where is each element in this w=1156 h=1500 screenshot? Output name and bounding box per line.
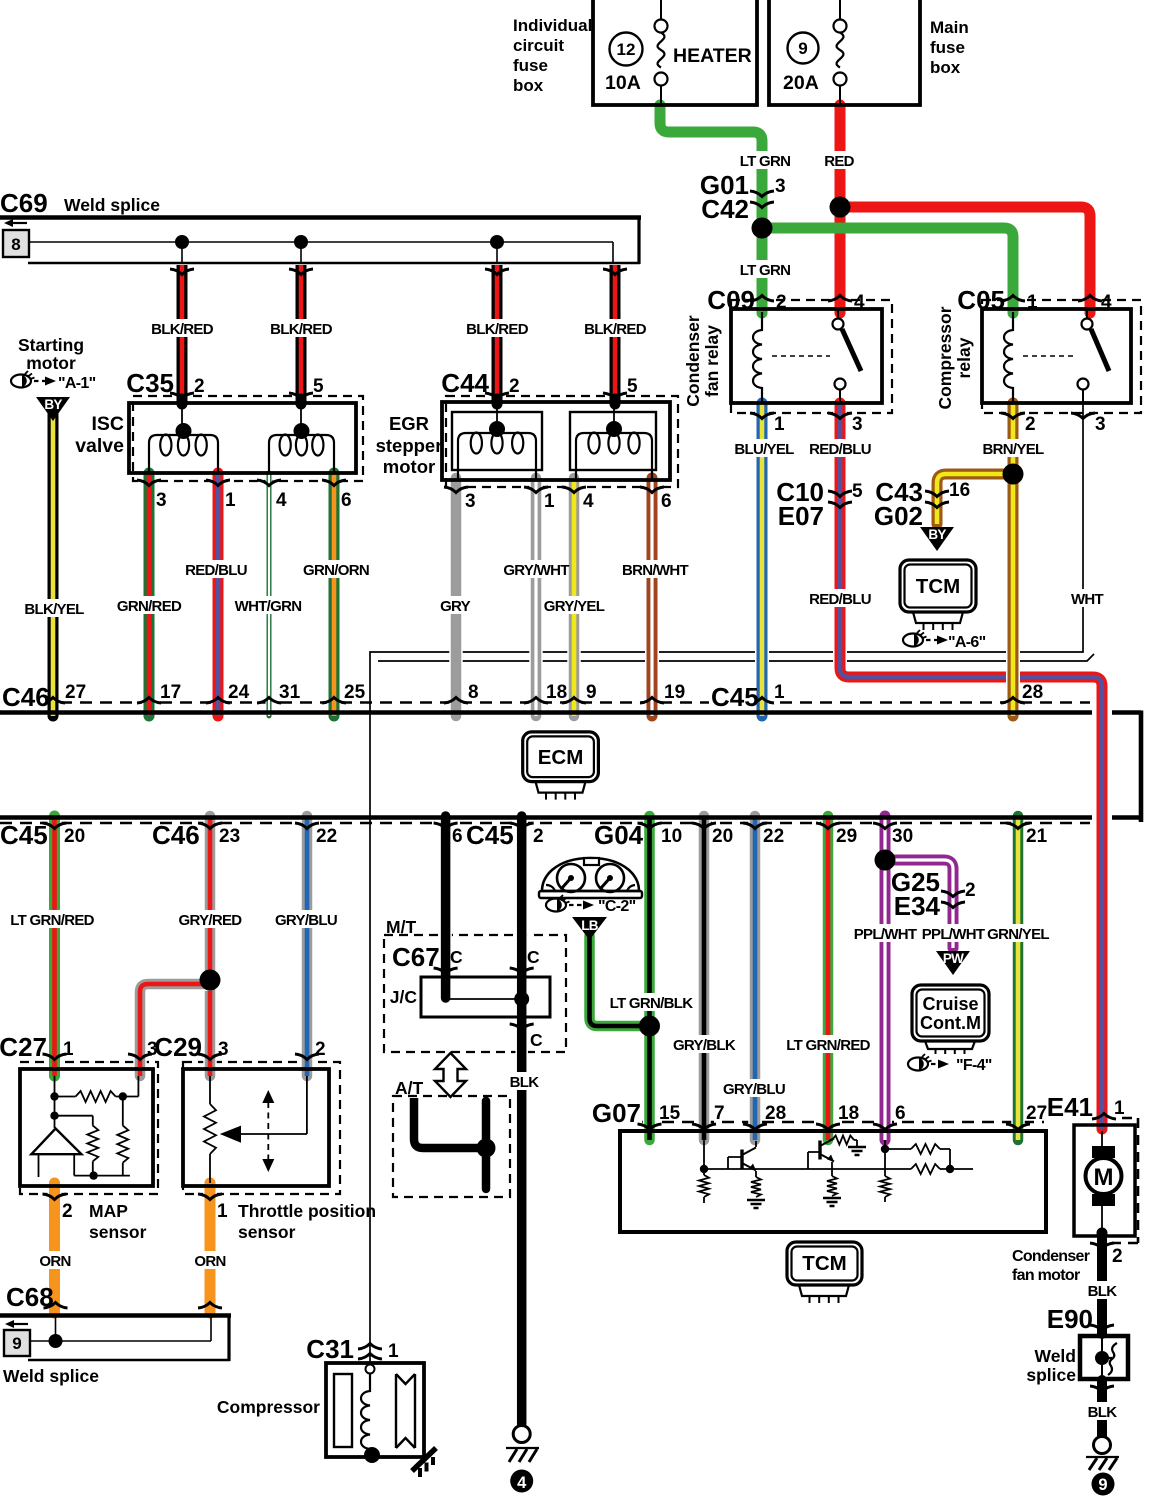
- svg-text:8: 8: [11, 235, 20, 254]
- A/T wire L: [414, 1098, 478, 1148]
- svg-text:motor: motor: [26, 353, 76, 373]
- svg-text:stepper: stepper: [376, 435, 443, 456]
- label BLK: [511, 1072, 537, 1090]
- TCM module lower: [787, 1242, 862, 1285]
- svg-text:"A-1": "A-1": [58, 375, 96, 392]
- svg-text:box: box: [930, 58, 961, 77]
- label GRY: [442, 596, 468, 614]
- svg-text:ORN: ORN: [194, 1253, 225, 1270]
- connector C45/C46/G04 dashed line: [0, 822, 1090, 825]
- cruise control module: [912, 985, 989, 1041]
- wire LT GRN from heater fuse to C09 pin 2: [660, 105, 762, 313]
- main fuse box: [769, 0, 920, 105]
- wire BLK/RED 3 from C69: [490, 265, 504, 399]
- wire thin line to ECM region: [378, 654, 1094, 661]
- svg-text:fan relay: fan relay: [702, 325, 722, 397]
- ECM box bottom edge / connector row C45-G04: [0, 815, 1141, 820]
- C68 terminal 9: [4, 1330, 30, 1356]
- label RED/BLU: [189, 560, 244, 578]
- svg-text:BY: BY: [44, 397, 62, 412]
- svg-text:M/T: M/T: [386, 917, 416, 937]
- svg-text:BLK/RED: BLK/RED: [270, 321, 333, 338]
- condenser fan relay box: [731, 309, 882, 403]
- svg-text:Weld splice: Weld splice: [3, 1366, 99, 1386]
- label GRY/RED: [183, 910, 238, 928]
- svg-text:C31: C31: [306, 1334, 354, 1364]
- arrow PW to cruise module: [936, 951, 970, 975]
- label BRN/WHT: [628, 560, 683, 578]
- label ORN 2: [197, 1251, 223, 1269]
- wire GRY/BLK G04 pin20 to G07 pin7: [697, 816, 711, 1140]
- svg-text:16: 16: [949, 480, 970, 501]
- driver resistor R3: [827, 1176, 837, 1196]
- svg-text:motor: motor: [383, 456, 435, 477]
- connector C05 dashed outline: [982, 300, 1141, 413]
- svg-text:Cont.M: Cont.M: [920, 1013, 981, 1033]
- transistor Q1: [740, 1150, 743, 1169]
- ISC coil 2: [269, 435, 334, 473]
- svg-text:1: 1: [774, 682, 785, 703]
- label GRN/YEL: [991, 924, 1046, 942]
- svg-text:BLK/RED: BLK/RED: [584, 321, 647, 338]
- TPS wiper arrow: [220, 1126, 241, 1143]
- svg-text:3: 3: [156, 490, 167, 511]
- svg-text:GRN/RED: GRN/RED: [117, 598, 182, 615]
- svg-text:21: 21: [1026, 826, 1048, 847]
- wire BLK C45 pin6 to J/C: [439, 816, 452, 998]
- label BLK 3: [1089, 1402, 1115, 1420]
- svg-text:BY: BY: [928, 527, 946, 542]
- svg-text:Individual: Individual: [513, 16, 592, 35]
- svg-text:6: 6: [895, 1103, 906, 1124]
- wire GRY/RED branch to C27 pin 3: [140, 984, 210, 1076]
- TCM lower pins: [799, 1285, 849, 1296]
- MAP joint 2: [50, 1112, 58, 1120]
- svg-text:PW: PW: [943, 951, 964, 966]
- wire GRY EGR pin3 to C46 pin 8: [449, 478, 463, 716]
- EGR stepper motor box: [442, 402, 670, 480]
- wire LT GRN branch to C05 pin 1: [762, 228, 1013, 313]
- svg-text:C69: C69: [0, 188, 48, 218]
- wire RED/BLU C09 pin3 to E41 pin 1: [840, 403, 1102, 1129]
- connector E41 dashed outline: [1112, 1118, 1138, 1243]
- svg-text:ORN: ORN: [39, 1253, 70, 1270]
- svg-text:sensor: sensor: [89, 1222, 147, 1242]
- C09 relay coil: [753, 312, 762, 403]
- wire ORN TPS pin1 to C68: [203, 1183, 217, 1313]
- C05 relay coil: [1004, 312, 1013, 403]
- E90 through wire: [1101, 1336, 1103, 1379]
- wire BLK/RED 2 from C69: [294, 265, 308, 399]
- wire BLK/RED 3 end cap: [492, 399, 503, 404]
- label PPL/WHT 2: [926, 924, 981, 942]
- wire PPL/WHT G04 pin30 to G07 pin6: [878, 816, 892, 1140]
- cruise module pins: [925, 1041, 975, 1049]
- wire BLK/RED 1 end cap: [177, 399, 188, 404]
- svg-text:BLK/RED: BLK/RED: [151, 321, 214, 338]
- svg-text:circuit: circuit: [513, 36, 564, 55]
- svg-text:C: C: [527, 947, 540, 967]
- svg-text:E90: E90: [1047, 1304, 1093, 1334]
- svg-text:BRN/YEL: BRN/YEL: [983, 441, 1044, 458]
- junction LT GRN/BLK: [639, 1016, 660, 1037]
- MAP internal node line: [54, 1076, 56, 1128]
- C69 splice inner link: [29, 242, 613, 262]
- fuse 12: [655, 20, 668, 33]
- svg-text:PPL/WHT: PPL/WHT: [854, 926, 917, 943]
- svg-text:J/C: J/C: [390, 987, 418, 1007]
- svg-text:relay: relay: [954, 337, 974, 378]
- svg-text:31: 31: [279, 682, 301, 703]
- view icon A-1: [11, 375, 31, 388]
- svg-text:3: 3: [465, 491, 476, 512]
- svg-text:EGR: EGR: [389, 413, 429, 434]
- svg-text:Compressor: Compressor: [935, 306, 955, 409]
- svg-text:9: 9: [586, 682, 597, 703]
- svg-text:C: C: [450, 947, 463, 967]
- arrow BY to TCM: [920, 527, 954, 551]
- svg-text:fuse: fuse: [930, 38, 965, 57]
- driver resistor R4: [911, 1164, 940, 1174]
- wire GRN/ORN ISC pin6 to C46 pin 25: [327, 473, 341, 716]
- wire GRN/RED ISC pin3 to C46 pin 17: [142, 473, 156, 716]
- driver rail: [704, 1168, 911, 1170]
- driver joint 2: [946, 1165, 954, 1173]
- wire WHT from C05 pin 3 to C31 compressor: [370, 403, 1083, 1363]
- MAP amplifier: [31, 1129, 81, 1155]
- svg-text:valve: valve: [75, 435, 124, 457]
- svg-text:BLK/YEL: BLK/YEL: [24, 601, 84, 618]
- svg-text:5: 5: [627, 376, 638, 397]
- wire RED branch to C05 pin 4: [840, 207, 1090, 313]
- svg-text:19: 19: [664, 682, 685, 703]
- svg-text:BLK: BLK: [510, 1074, 540, 1091]
- svg-text:23: 23: [219, 826, 240, 847]
- MAP sensor box: [20, 1069, 153, 1186]
- connector C09 dashed outline: [731, 300, 892, 413]
- motor brush bottom: [1092, 1194, 1115, 1206]
- view icon A-6: [903, 634, 923, 647]
- connector C35 dashed outline: [133, 396, 363, 481]
- svg-text:9: 9: [1098, 1476, 1107, 1494]
- label BLK/RED: [274, 319, 329, 337]
- compressor element: [334, 1374, 352, 1447]
- compressor belt symbol: [396, 1374, 415, 1448]
- MAP link to pin 3: [116, 1076, 139, 1097]
- M/T A/T selector arrow: [435, 1053, 466, 1097]
- svg-text:2: 2: [533, 826, 544, 847]
- ground 9: [1094, 1437, 1111, 1454]
- svg-text:2: 2: [509, 376, 520, 397]
- svg-text:Weld: Weld: [1035, 1346, 1077, 1366]
- wire GRY/RED C46 pin23 to TPS: [203, 816, 217, 1076]
- wire WHT/GRN ISC pin4 to C46 pin 31: [266, 473, 273, 716]
- label GRN/RED: [122, 596, 177, 614]
- arrow BY starting motor: [36, 397, 70, 421]
- svg-text:6: 6: [661, 491, 672, 512]
- svg-text:"A-6": "A-6": [948, 634, 986, 651]
- label GRY/YEL: [547, 596, 602, 614]
- MAP joint 3: [119, 1092, 127, 1100]
- A/T dashed box: [393, 1096, 510, 1197]
- svg-text:4: 4: [517, 1474, 527, 1492]
- TPS adjust arrow line: [267, 1102, 269, 1160]
- svg-text:3: 3: [775, 176, 786, 197]
- wire GRN/YEL G04 pin21 to G07 pin27: [1011, 816, 1025, 1140]
- svg-text:E34: E34: [894, 891, 941, 921]
- driver input 7: [703, 1140, 705, 1169]
- svg-text:BLU/YEL: BLU/YEL: [734, 441, 794, 458]
- junction BRN/YEL: [1003, 464, 1024, 485]
- svg-text:1: 1: [225, 490, 236, 511]
- connector G07: [595, 1103, 641, 1125]
- ECM module: [523, 732, 599, 782]
- C68 splice joint: [49, 1334, 63, 1348]
- svg-text:Throttle position: Throttle position: [238, 1201, 376, 1221]
- driver joint 1: [700, 1165, 708, 1173]
- ECM box right edge: [1139, 711, 1144, 823]
- TCM module: [900, 560, 976, 612]
- svg-text:fuse: fuse: [513, 56, 548, 75]
- svg-text:1: 1: [63, 1039, 74, 1060]
- connector C46: [0, 687, 46, 709]
- wire GRY/BLU C46 pin22 to TPS: [300, 816, 314, 1076]
- svg-text:Weld splice: Weld splice: [64, 195, 160, 215]
- svg-text:BLK: BLK: [1088, 1404, 1118, 1421]
- svg-text:20A: 20A: [783, 72, 819, 94]
- label WHT/GRN: [241, 596, 296, 614]
- wire GRY/YEL EGR pin4 to C46 pin 9: [567, 478, 581, 716]
- svg-text:GRY/RED: GRY/RED: [179, 912, 243, 929]
- EGR coil 1 feed: [496, 405, 498, 422]
- wire BLU/YEL C09 pin1 to C45 pin 1: [755, 403, 769, 716]
- svg-text:20: 20: [64, 826, 85, 847]
- J/C joint: [514, 992, 529, 1007]
- wire BLK/RED 4 from C69: [608, 265, 622, 399]
- svg-text:4: 4: [276, 490, 287, 511]
- driver resistor R5: [832, 1136, 854, 1145]
- C69 terminal 8: [3, 230, 29, 257]
- MAP resistor R2: [87, 1126, 98, 1162]
- label RED/BLU 2: [813, 589, 868, 607]
- svg-text:C27: C27: [0, 1032, 47, 1062]
- svg-text:C67: C67: [392, 942, 440, 972]
- wire BRN/WHT EGR pin6 to C46 pin 19: [645, 478, 659, 716]
- M/T dashed box: [384, 935, 566, 1052]
- EGR coil 2: [576, 433, 652, 480]
- wire BLK C45 pin2 to ground 4: [515, 816, 528, 1424]
- svg-text:Starting: Starting: [18, 335, 84, 355]
- A/T joint: [477, 1139, 496, 1158]
- wire BLK E41 pin2 to E90: [1096, 1236, 1109, 1334]
- driver input 6: [884, 1140, 886, 1149]
- wire RED/BLU ISC pin1 to C46 pin 24: [211, 473, 225, 716]
- svg-text:"F-4": "F-4": [956, 1057, 992, 1074]
- driver resistor R6: [911, 1144, 940, 1154]
- A/T wire vertical: [482, 1101, 491, 1189]
- svg-text:6: 6: [341, 490, 352, 511]
- ground chassis C31: [412, 1448, 436, 1471]
- connector C46 lower: [150, 825, 196, 847]
- label BLK 2: [1089, 1281, 1115, 1299]
- label PPL/WHT: [858, 924, 913, 942]
- driver resistor R1: [699, 1175, 709, 1197]
- MAP joint 4: [89, 1171, 97, 1179]
- motor M: [1086, 1158, 1122, 1194]
- connector C29 dashed outline: [183, 1062, 340, 1194]
- E90 weld splice box: [1080, 1336, 1128, 1379]
- ECM connector pins: [536, 782, 586, 793]
- svg-text:C45: C45: [711, 682, 759, 712]
- E90 splice joint: [1095, 1351, 1109, 1365]
- ECM box top edge / connector row C46-C45: [0, 710, 1141, 715]
- svg-text:box: box: [513, 76, 544, 95]
- motor feed: [1101, 1131, 1103, 1147]
- junction PPL/WHT: [875, 850, 896, 871]
- wire LT GRN/BLK G04 pin10 to G07 pin15: [643, 816, 657, 1140]
- wire PPL/WHT branch to PW arrow: [885, 860, 953, 948]
- svg-text:4: 4: [583, 491, 594, 512]
- wire LT GRN/BLK from gauge LB: [590, 936, 645, 1026]
- svg-text:LB: LB: [581, 918, 599, 933]
- wire BLK E90 to ground 9: [1096, 1380, 1109, 1436]
- svg-text:27: 27: [1026, 1103, 1047, 1124]
- connector C45 lower: [0, 825, 44, 847]
- label LT GRN/RED: [14, 910, 90, 928]
- ground R5: [848, 1147, 866, 1155]
- svg-text:E41: E41: [1047, 1092, 1093, 1122]
- svg-text:BRN/WHT: BRN/WHT: [622, 562, 688, 579]
- svg-text:C35: C35: [126, 368, 174, 398]
- svg-text:1: 1: [544, 491, 555, 512]
- svg-text:1: 1: [1114, 1098, 1125, 1119]
- arrow LB to gauge: [572, 917, 607, 940]
- svg-text:29: 29: [836, 826, 857, 847]
- svg-text:24: 24: [228, 682, 250, 703]
- ISC valve box: [129, 403, 356, 473]
- label BLK/RED: [155, 319, 210, 337]
- svg-text:28: 28: [765, 1103, 786, 1124]
- C69 splice bar: [0, 215, 641, 220]
- svg-text:sensor: sensor: [238, 1222, 296, 1242]
- svg-text:PPL/WHT: PPL/WHT: [922, 926, 985, 943]
- label LT GRN: [741, 151, 789, 169]
- svg-text:LT GRN: LT GRN: [740, 262, 791, 279]
- driver resistor R7: [880, 1176, 890, 1197]
- svg-text:GRY/WHT: GRY/WHT: [503, 562, 569, 579]
- svg-text:E07: E07: [778, 501, 824, 531]
- Q2 base link: [808, 1152, 820, 1169]
- svg-text:TCM: TCM: [916, 575, 960, 598]
- junction GRY/RED: [200, 970, 221, 991]
- svg-text:2: 2: [315, 1039, 326, 1060]
- connector G07 dashed line: [622, 1121, 1044, 1124]
- E90 splice hook: [1102, 1343, 1117, 1375]
- fuse 9: [834, 20, 847, 33]
- svg-text:GRY/BLK: GRY/BLK: [673, 1037, 736, 1054]
- MAP link to R3: [122, 1097, 124, 1126]
- svg-text:C29: C29: [154, 1032, 202, 1062]
- ground Q1: [747, 1200, 765, 1208]
- svg-text:25: 25: [344, 682, 366, 703]
- svg-text:HEATER: HEATER: [673, 45, 752, 67]
- svg-text:C46: C46: [152, 820, 200, 850]
- svg-text:2: 2: [1112, 1246, 1123, 1267]
- svg-text:17: 17: [160, 682, 181, 703]
- svg-text:5: 5: [313, 376, 324, 397]
- motor brush top: [1092, 1146, 1115, 1158]
- svg-text:A/T: A/T: [395, 1078, 424, 1098]
- junction LT GRN: [752, 218, 773, 239]
- C69 splice joint: [490, 235, 504, 249]
- svg-text:3: 3: [1095, 414, 1106, 435]
- svg-text:2: 2: [62, 1201, 73, 1222]
- C09 relay switch: [833, 319, 844, 330]
- junction RED: [830, 197, 851, 218]
- compressor relay box: [982, 309, 1131, 403]
- label ORN: [42, 1251, 68, 1269]
- C68 splice bar: [0, 1313, 231, 1318]
- label GRN/ORN: [309, 560, 364, 578]
- ground Q2: [823, 1198, 841, 1206]
- wire BLK/RED 4 end cap: [610, 399, 621, 404]
- MAP amplifier legs: [39, 1154, 75, 1177]
- wire LT GRN/RED G04 pin29 to G07 pin18: [821, 816, 835, 1140]
- label GRY/BLU 2: [727, 1079, 782, 1097]
- svg-text:MAP: MAP: [89, 1201, 128, 1221]
- label RED: [826, 151, 852, 169]
- C31 coil: [361, 1373, 370, 1449]
- svg-text:GRY/BLU: GRY/BLU: [275, 912, 337, 929]
- connector C46/C45 dashed line: [0, 701, 1090, 704]
- ISC coil 1 feed: [181, 406, 183, 424]
- label BLK/RED: [470, 319, 525, 337]
- svg-text:6: 6: [452, 826, 463, 847]
- svg-text:G04: G04: [594, 820, 644, 850]
- svg-text:9: 9: [798, 39, 807, 58]
- svg-text:RED/BLU: RED/BLU: [185, 562, 247, 579]
- TCM connector pins: [913, 612, 963, 623]
- C69 splice joint: [294, 235, 308, 249]
- MAP resistor R3: [117, 1126, 128, 1163]
- svg-text:WHT: WHT: [1071, 591, 1104, 608]
- connector C44 dashed outline: [446, 396, 678, 487]
- label LT GRN/BLK: [613, 993, 689, 1011]
- compressor box: [326, 1363, 424, 1457]
- C05 relay switch: [1082, 319, 1093, 330]
- driver resistor R2: [751, 1177, 761, 1197]
- svg-text:LT GRN/BLK: LT GRN/BLK: [610, 995, 694, 1012]
- connector C45 mid: [464, 825, 510, 847]
- label BLK/RED: [588, 319, 643, 337]
- ISC coil 1: [149, 435, 218, 473]
- J/C internal link: [446, 998, 522, 1000]
- svg-text:LT GRN/RED: LT GRN/RED: [786, 1037, 870, 1054]
- TCM driver circuit box: [620, 1131, 1046, 1232]
- svg-text:7: 7: [714, 1103, 725, 1124]
- EGR coil 2 feed: [613, 405, 615, 422]
- svg-text:10: 10: [661, 826, 682, 847]
- label BRN/YEL: [986, 439, 1041, 457]
- svg-text:RED/BLU: RED/BLU: [809, 441, 871, 458]
- svg-text:5: 5: [852, 481, 863, 502]
- svg-text:28: 28: [1022, 682, 1043, 703]
- svg-text:G07: G07: [592, 1098, 641, 1128]
- svg-text:2: 2: [965, 880, 976, 901]
- label GRY/BLK: [677, 1035, 732, 1053]
- svg-text:9: 9: [12, 1334, 21, 1353]
- throttle position sensor box: [183, 1069, 329, 1186]
